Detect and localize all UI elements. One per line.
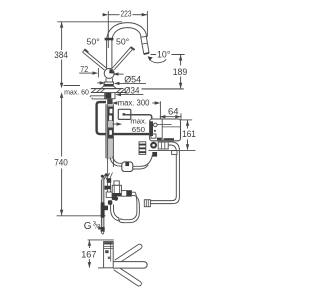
lower valve: middle pipe xyxy=(105,178,113,197)
supply hose J-loop left (thick) xyxy=(97,102,150,134)
max300 extension line xyxy=(159,101,161,119)
dimension 72 extension line xyxy=(97,68,99,78)
left pipe dark connector block xyxy=(101,202,105,218)
spray head holder cylinder xyxy=(104,242,114,268)
dimension 223 line xyxy=(103,13,148,16)
svg-text:161: 161 xyxy=(182,129,196,140)
cable from box to control unit xyxy=(125,115,152,119)
dimension 167 bottom tick xyxy=(98,267,103,269)
unit bottom outlet dark fitting xyxy=(152,152,157,157)
svg-text:223: 223 xyxy=(121,10,132,19)
svg-text:Ø54: Ø54 xyxy=(124,74,142,85)
dark tee below valve xyxy=(112,196,117,200)
shank nut below counter xyxy=(105,93,115,99)
svg-text:/8: /8 xyxy=(95,224,101,231)
dimension 167 top tick xyxy=(88,239,114,241)
faucet neck pipe xyxy=(107,40,112,68)
faucet axis centerline xyxy=(107,11,109,48)
spray hose hook left piece xyxy=(111,205,120,221)
diameter 54 left arrow xyxy=(97,81,105,84)
spray wand lower ghost position xyxy=(114,266,142,286)
inline filter component xyxy=(122,162,133,172)
horizontal fitting xyxy=(121,190,135,196)
countertop top line xyxy=(91,88,184,90)
G3/8 supply pipe lower dark band xyxy=(101,227,105,232)
pipe below ball xyxy=(106,78,113,82)
outlet hose right loop xyxy=(150,142,179,204)
svg-text:Ø34: Ø34 xyxy=(124,85,140,96)
control unit body xyxy=(150,119,181,141)
svg-text:72: 72 xyxy=(80,65,88,74)
lever handle left 50deg position xyxy=(83,50,107,70)
G3/8 leader arrow xyxy=(98,227,103,230)
dimension 223 extension line right xyxy=(146,11,148,37)
hose bundle vertical xyxy=(106,104,114,173)
dimension 64 right extension xyxy=(180,113,182,120)
hook hose nut upper xyxy=(114,197,118,201)
hose connector lower xyxy=(108,128,114,139)
unit bottom-left outlet dark nut xyxy=(150,142,157,149)
control unit inner divider xyxy=(161,119,163,141)
dimension 189 line with arrows xyxy=(179,55,182,89)
svg-text:650: 650 xyxy=(132,125,145,134)
diameter 54 leader and underline xyxy=(114,82,146,85)
control unit bottom left striped connector xyxy=(139,142,146,155)
diameter 34 leader xyxy=(115,93,143,96)
spray head at spout end xyxy=(141,36,149,55)
spray wand upper ghost position xyxy=(115,244,142,264)
unit bottom fitting box xyxy=(158,142,168,149)
dimension 167 line with arrows xyxy=(88,240,91,268)
spray hose hook right piece xyxy=(119,192,139,223)
svg-text:50°: 50° xyxy=(116,38,129,47)
svg-text:10°: 10° xyxy=(157,49,170,59)
control unit right inner line xyxy=(162,126,180,128)
max300 right arrow xyxy=(152,101,160,104)
countertop bottom line xyxy=(91,92,127,94)
svg-text:G: G xyxy=(84,221,92,232)
svg-text:740: 740 xyxy=(54,158,68,169)
check valve body xyxy=(112,185,121,196)
sensor box xyxy=(118,109,131,119)
lower valve: left supply pipe xyxy=(101,180,104,231)
control unit left edge dark connectors xyxy=(150,121,153,136)
main vertical dimension line (384 / 740) xyxy=(60,22,63,216)
dimension 161 line with arrows xyxy=(186,120,189,150)
svg-text:64: 64 xyxy=(168,106,179,117)
threaded shank dark xyxy=(107,99,112,104)
control unit bottom dark details xyxy=(157,138,174,141)
check valve cap xyxy=(114,181,119,185)
dimension 740 bottom tick xyxy=(57,215,106,217)
svg-text:167: 167 xyxy=(81,249,96,260)
control unit circle xyxy=(154,123,158,127)
supply pipe bottom end xyxy=(101,231,104,235)
control unit small screw dot xyxy=(154,130,156,132)
dimension 161 bottom tick xyxy=(149,149,196,151)
dark collar at neck top xyxy=(105,38,114,41)
escutcheon dark band xyxy=(103,84,113,86)
hose from bundle through filter toward unit xyxy=(110,155,152,169)
dimension 72 leader with arrow xyxy=(79,71,98,74)
countertop hatching xyxy=(92,89,126,93)
svg-text:max. 60: max. 60 xyxy=(64,88,89,97)
leader right of ball xyxy=(113,72,124,75)
hose clip below elbow xyxy=(172,151,177,155)
hose stubs splitting to lower valve cluster xyxy=(101,173,113,181)
svg-text:50°: 50° xyxy=(87,38,100,47)
leader line through 10deg label xyxy=(151,54,185,56)
spray wand horizontal xyxy=(113,262,147,269)
control unit inner rect xyxy=(151,134,156,138)
spout arc outer edge xyxy=(107,23,147,41)
escutcheon top xyxy=(104,82,113,84)
dimension 384 top tick xyxy=(57,21,122,23)
arrow below sensor box xyxy=(112,122,122,125)
ball joint xyxy=(104,68,114,78)
10deg swivel arc indicator xyxy=(148,56,167,62)
svg-text:max. 300: max. 300 xyxy=(118,99,150,108)
sensor box dot xyxy=(123,113,126,115)
control unit inner leader line xyxy=(158,124,172,126)
svg-text:189: 189 xyxy=(173,67,188,78)
spout arc inner edge xyxy=(112,28,141,41)
dimension 64 line xyxy=(160,115,181,118)
svg-text:384: 384 xyxy=(54,50,68,61)
dimension 161 top tick xyxy=(180,119,192,121)
right hose end nut xyxy=(144,200,150,207)
shank mounting plate lines xyxy=(90,96,110,99)
base cone xyxy=(101,86,117,88)
max300 left arrow xyxy=(112,101,118,104)
lever handle right 50deg position xyxy=(112,47,134,70)
dimension 384 bottom tick xyxy=(64,85,81,87)
hose connector upper xyxy=(108,107,114,122)
side branch knob xyxy=(104,206,108,211)
hook end fitting xyxy=(108,200,112,204)
label G 3/8 xyxy=(84,221,101,232)
